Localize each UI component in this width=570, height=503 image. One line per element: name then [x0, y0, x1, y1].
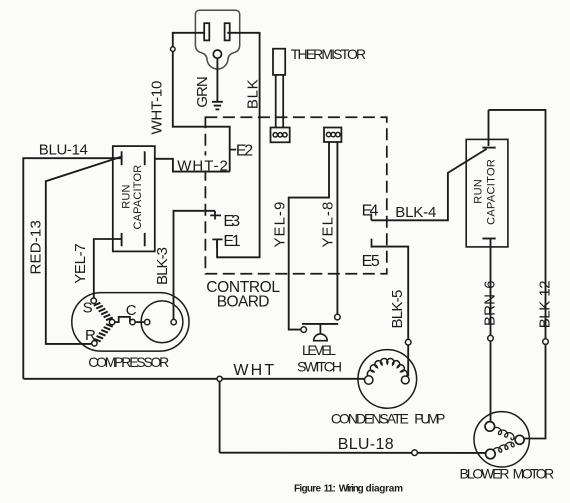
plug left slot	[204, 23, 209, 40]
blower coil upper	[492, 427, 514, 439]
svg-text:BLU-14: BLU-14	[39, 142, 88, 159]
link between C terminals	[135, 321, 144, 323]
svg-text:WHT-10: WHT-10	[149, 81, 166, 135]
level switch blade	[302, 323, 338, 325]
run capacitor C2 box	[466, 139, 508, 247]
svg-text:COMPRESSOR: COMPRESSOR	[88, 354, 169, 370]
svg-text:E2: E2	[236, 143, 253, 160]
svg-text:YEL-8: YEL-8	[320, 202, 337, 248]
wire E3 to compressor BLK-3	[174, 211, 216, 320]
svg-text:SWITCH: SWITCH	[297, 359, 342, 375]
wire YEL-8 connector J2 to level switch	[336, 142, 338, 314]
svg-text:YEL-9: YEL-9	[272, 202, 289, 248]
wire drop to BLU-18	[219, 381, 221, 452]
svg-text:E1: E1	[223, 233, 240, 250]
svg-text:LEVEL: LEVEL	[302, 342, 336, 358]
wire top link C2 to BLK-12	[489, 110, 546, 339]
pump coil	[367, 358, 407, 377]
svg-text:MOTOR: MOTOR	[513, 466, 555, 482]
svg-text:BLOWER: BLOWER	[460, 466, 510, 482]
connector circle on BLK-12	[543, 339, 549, 345]
svg-text:E3: E3	[223, 213, 240, 230]
condensate pump body	[358, 350, 417, 409]
plug ground hole	[213, 50, 221, 58]
svg-text:11:: 11:	[324, 483, 336, 494]
terminal E4 bar	[370, 214, 372, 221]
wire YEL-9 connector J2 to level switch	[289, 142, 329, 330]
pump left terminal	[365, 376, 373, 384]
blower coil lower	[493, 442, 515, 452]
pump right terminal	[401, 376, 409, 384]
svg-text:YEL-7: YEL-7	[72, 243, 89, 283]
thermistor connector J1	[271, 128, 290, 143]
compressor motor circle	[141, 301, 183, 343]
terminal E5 bar	[371, 239, 373, 248]
terminal E2 tick	[230, 149, 237, 151]
plug right slot	[225, 23, 230, 40]
thermistor wires	[275, 75, 277, 128]
svg-text:BOARD: BOARD	[217, 294, 270, 311]
svg-text:THERMISTOR: THERMISTOR	[291, 46, 366, 62]
svg-text:E4: E4	[362, 202, 379, 219]
compressor terminal C right	[145, 319, 150, 324]
wire E5 BLK-5 to condensate pump	[372, 247, 409, 340]
blower terminal right	[515, 435, 524, 444]
wire WHT-10 down and over to E2 vertical	[173, 51, 230, 171]
wire BLU-18	[220, 452, 487, 454]
wire BLK-12 lower	[525, 344, 546, 438]
terminal E3 bar	[214, 211, 216, 220]
connector circle on BRN-6	[488, 335, 494, 341]
svg-text:BLK-12: BLK-12	[537, 280, 554, 328]
connector circle on WHT-10	[171, 47, 176, 52]
wire WHT main	[23, 378, 364, 380]
svg-text:BLK: BLK	[245, 79, 262, 109]
compressor run terminal	[171, 319, 176, 324]
white patch under WHT-2 label	[201, 156, 213, 171]
terminal E1 tick	[212, 238, 222, 240]
svg-text:WHT-2: WHT-2	[177, 157, 228, 174]
svg-text:BLK-5: BLK-5	[389, 290, 406, 329]
compressor common point	[109, 319, 114, 324]
svg-text:CAPACITOR: CAPACITOR	[132, 165, 144, 230]
wire YEL-7 capacitor to compressor S	[94, 239, 122, 298]
svg-text:Figure: Figure	[294, 483, 321, 494]
winding R hatch	[94, 324, 113, 341]
wire plug left slot to WHT-10	[173, 33, 207, 47]
winding S hatch	[94, 303, 113, 320]
svg-text:PUMP: PUMP	[414, 411, 445, 427]
svg-text:E5: E5	[362, 253, 380, 270]
svg-text:GRN: GRN	[194, 76, 211, 107]
svg-text:CONDENSATE: CONDENSATE	[331, 411, 409, 427]
svg-text:C: C	[126, 302, 137, 319]
C1 terminal bars	[121, 151, 123, 165]
wire BLK-5 lower	[407, 345, 409, 376]
level switch right contact	[335, 314, 341, 320]
wire plug right slot BLK down to E1	[217, 33, 260, 257]
level switch float stem	[319, 324, 321, 334]
svg-text:RUN: RUN	[121, 185, 133, 209]
wire E4 BLK-4 to run capacitor 2	[371, 149, 486, 220]
ground symbol	[212, 102, 223, 110]
compressor terminal C left	[130, 319, 135, 324]
terminal E3 tick	[210, 214, 221, 216]
compressor body (stadium)	[72, 293, 189, 352]
level switch left contact	[301, 327, 307, 333]
connector circle on BLK-5	[405, 339, 411, 345]
wire WHT-2 from run capacitor to E2 node	[145, 159, 230, 172]
ground wire GRN	[216, 58, 218, 101]
svg-text:diagram: diagram	[366, 483, 403, 494]
C2 top terminal wire	[488, 110, 490, 146]
junction circle on WHT	[217, 376, 222, 381]
svg-text:RED-13: RED-13	[28, 220, 45, 274]
wire BRN-6 lower	[490, 341, 492, 422]
J1 pins	[273, 133, 277, 137]
control board dashed box	[205, 117, 386, 274]
svg-text:RUN: RUN	[473, 179, 485, 204]
svg-text:R: R	[85, 327, 96, 344]
wire RED-13 diagonal from capacitor	[46, 157, 122, 344]
blower terminal top-left	[485, 422, 495, 432]
wire BRN-6 from C2 bottom	[490, 239, 492, 336]
blower terminal bottom-left	[486, 449, 496, 459]
terminal E1 bar	[216, 239, 218, 248]
connector J2	[324, 128, 341, 143]
level switch float	[314, 334, 328, 341]
svg-text:BRN-6: BRN-6	[482, 280, 499, 326]
svg-text:BLU-18: BLU-18	[338, 436, 394, 453]
svg-text:BLK-4: BLK-4	[395, 204, 436, 221]
thermistor TH1 body	[273, 49, 285, 75]
C2 top terminal bar	[482, 147, 495, 149]
svg-text:WHT: WHT	[233, 362, 274, 379]
run capacitor C1 box	[113, 146, 155, 251]
compressor terminal R	[92, 341, 97, 346]
wire BLU-14 from capacitor to left rail	[23, 158, 121, 379]
svg-text:Wiring: Wiring	[339, 483, 364, 494]
svg-text:BLK-3: BLK-3	[154, 247, 171, 285]
compressor terminal S	[91, 298, 96, 303]
C2 bottom terminal bar	[482, 238, 495, 240]
svg-text:CAPACITOR: CAPACITOR	[486, 159, 498, 225]
overload protector jog	[115, 317, 130, 322]
connector circle on BLU-18	[412, 450, 418, 456]
J2 pins	[326, 132, 330, 136]
blower motor body	[474, 412, 529, 467]
plug P1 outline	[195, 10, 239, 69]
svg-text:S: S	[83, 300, 93, 317]
